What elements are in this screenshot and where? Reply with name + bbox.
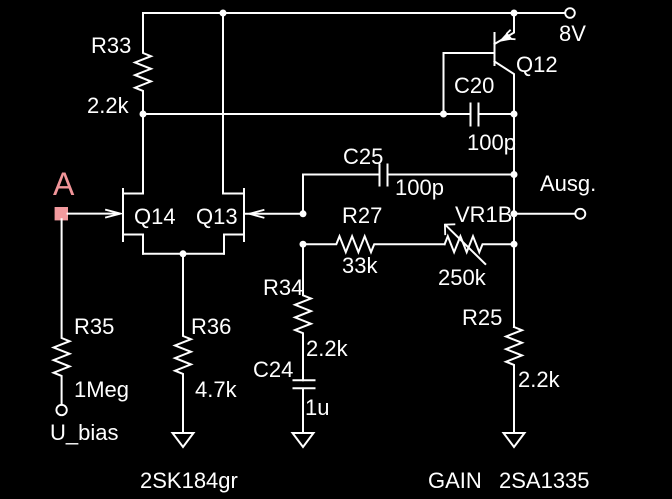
svg-text:Q14: Q14 — [134, 204, 176, 229]
svg-text:R36: R36 — [191, 314, 231, 339]
potentiometer VR1B — [445, 224, 514, 264]
wire Q12 base to C20 left node — [444, 53, 495, 114]
junction top rail Q13 — [220, 10, 227, 17]
wire output column — [513, 114, 515, 327]
capacitor C25 — [303, 165, 514, 214]
junction R27 right — [511, 241, 518, 248]
ground C24 — [293, 433, 314, 447]
wire to Ausg terminal — [514, 213, 575, 215]
svg-text:250k: 250k — [438, 265, 487, 290]
svg-text:100p: 100p — [395, 175, 444, 200]
junction C25 right — [511, 171, 518, 178]
terminal 8V — [565, 8, 575, 18]
resistor R27 — [303, 236, 445, 252]
junction feedback left — [300, 210, 307, 217]
svg-text:2.2k: 2.2k — [87, 93, 130, 118]
svg-text:R25: R25 — [462, 305, 502, 330]
junction common source — [180, 250, 187, 257]
resistor R34 — [295, 244, 311, 380]
wire node A to Q14 gate — [68, 210, 121, 218]
svg-text:2.2k: 2.2k — [518, 367, 561, 392]
svg-text:Q13: Q13 — [196, 204, 238, 229]
capacitor C24 — [294, 380, 315, 433]
svg-text:VR1B: VR1B — [455, 202, 512, 227]
svg-text:33k: 33k — [342, 253, 378, 278]
ground R36 — [173, 433, 194, 447]
wire Q13 drain — [222, 13, 224, 194]
transistor Q13 — [224, 189, 244, 254]
junction output node — [511, 210, 518, 217]
junction R33 bottom — [140, 111, 147, 118]
wire common sources — [143, 253, 224, 255]
svg-text:U_bias: U_bias — [50, 420, 118, 445]
svg-text:100p: 100p — [467, 130, 516, 155]
svg-text:2SA1335: 2SA1335 — [499, 468, 590, 493]
svg-text:C24: C24 — [253, 357, 293, 382]
wire node R33 bottom to C20 — [143, 113, 471, 115]
svg-text:R33: R33 — [91, 33, 131, 58]
wire Q13 gate to feedback node — [246, 210, 303, 218]
svg-text:R35: R35 — [74, 314, 114, 339]
svg-text:C25: C25 — [343, 144, 383, 169]
resistor R36 — [175, 254, 191, 433]
ground R25 — [504, 433, 525, 447]
svg-text:A: A — [53, 166, 75, 202]
svg-text:8V: 8V — [559, 21, 586, 46]
transistor Q14 — [123, 114, 143, 254]
svg-text:GAIN: GAIN — [428, 468, 482, 493]
svg-text:Ausg.: Ausg. — [540, 171, 596, 196]
junction C20 left — [440, 111, 447, 118]
svg-text:2.2k: 2.2k — [306, 336, 349, 361]
capacitor C20 — [471, 104, 515, 126]
svg-text:1u: 1u — [305, 395, 329, 420]
svg-text:Q12: Q12 — [516, 52, 558, 77]
junction R27 left — [300, 241, 307, 248]
resistor R25 — [506, 327, 522, 433]
svg-text:R27: R27 — [342, 203, 382, 228]
node A square — [55, 207, 68, 220]
resistor R33 — [135, 13, 151, 114]
junction Q12 collector — [511, 111, 518, 118]
resistor R35 — [54, 219, 70, 404]
svg-text:2SK184gr: 2SK184gr — [140, 468, 238, 493]
svg-text:4.7k: 4.7k — [195, 377, 238, 402]
junction top rail Q12 — [511, 10, 518, 17]
transistor Q12 — [495, 13, 515, 114]
svg-text:1Meg: 1Meg — [74, 377, 129, 402]
svg-text:C20: C20 — [454, 73, 494, 98]
wire top power rail — [143, 12, 565, 14]
terminal Ausg — [575, 209, 585, 219]
terminal U_bias — [56, 405, 66, 415]
svg-text:R34: R34 — [263, 275, 303, 300]
